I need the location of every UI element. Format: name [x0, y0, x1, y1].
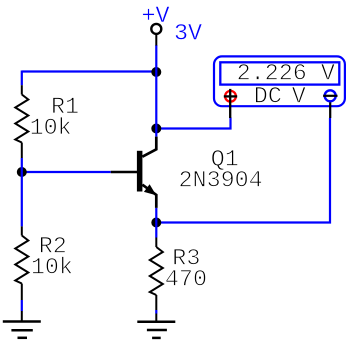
wire top horizontal (supply rail to R1) — [22, 70, 157, 72]
svg-text:+V: +V — [142, 4, 170, 30]
wire center vertical from +V to collector — [155, 45, 157, 137]
wire emitter vertical to R3 — [155, 208, 157, 238]
voltmeter minus terminal — [323, 90, 337, 118]
wire R2 to ground — [21, 300, 23, 311]
label Q1 — [211, 148, 239, 174]
supply terminal +V circle — [151, 24, 161, 46]
resistor R3 — [150, 238, 163, 311]
transistor Q1 emitter lead — [142, 185, 156, 208]
label R3 — [172, 247, 200, 273]
transistor Q1 emitter arrow — [144, 184, 156, 195]
svg-text:10k: 10k — [30, 116, 72, 142]
node junction dot J1 supply/R1 — [151, 67, 161, 77]
voltmeter mode label DC V — [254, 85, 306, 111]
resistor R1 — [15, 85, 28, 158]
wire base horizontal (divider node to Q1 base) — [22, 171, 111, 173]
transistor Q1 base lead — [111, 171, 137, 173]
node junction dot J2 collector — [151, 124, 161, 134]
voltmeter reading 2.226 V — [237, 62, 335, 88]
label 3V — [174, 21, 202, 47]
wire left vertical upper to R1 — [21, 71, 23, 86]
svg-text:2N3904: 2N3904 — [179, 169, 263, 195]
label R1 — [51, 95, 79, 121]
svg-text:470: 470 — [165, 268, 207, 294]
label +V — [142, 4, 170, 30]
transistor Q1 base bar — [137, 151, 143, 192]
voltmeter plus terminal — [224, 89, 237, 118]
svg-text:10k: 10k — [31, 256, 73, 282]
ground symbol middle (under R3) — [137, 314, 175, 338]
label R2 — [39, 235, 67, 261]
voltmeter display window — [220, 62, 339, 84]
svg-text:V: V — [292, 85, 306, 111]
label R2 value 10k — [31, 256, 73, 282]
svg-text:2.226 V: 2.226 V — [237, 62, 335, 88]
wire R3 to ground — [155, 310, 157, 314]
node junction dot JB base divider — [17, 167, 27, 177]
wire left vertical R1 to R2 — [21, 158, 23, 226]
label Q1 part 2N3904 — [179, 169, 263, 195]
node junction dot J3 emitter — [151, 218, 161, 228]
resistor R2 — [15, 226, 28, 300]
wire emitter to meter minus — [156, 118, 330, 223]
transistor Q1 collector lead — [142, 137, 156, 157]
svg-text:DC: DC — [254, 85, 282, 111]
ground symbol left (under R2) — [3, 311, 41, 338]
wire collector to meter plus — [156, 118, 230, 129]
label R3 value 470 — [165, 268, 207, 294]
label R1 value 10k — [30, 116, 72, 142]
svg-text:3V: 3V — [174, 21, 202, 47]
voltmeter U1 body — [214, 56, 345, 106]
